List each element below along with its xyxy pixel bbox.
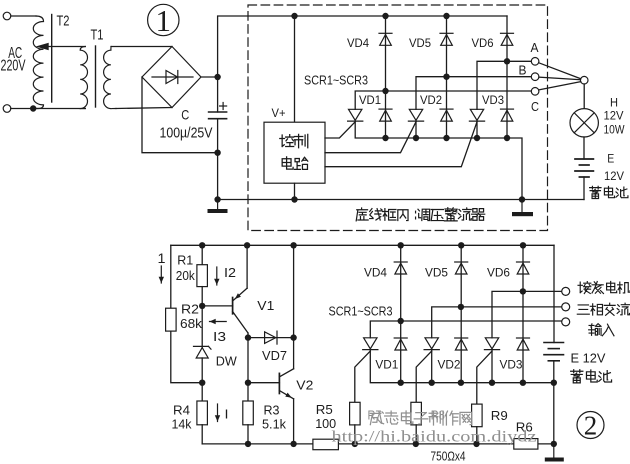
thyristor SCR1 xyxy=(348,109,363,121)
thyristor SCR3 xyxy=(469,109,484,121)
circuit2 supply rail xyxy=(171,244,554,246)
battery E circuit2 xyxy=(544,343,564,361)
svg-text:10W: 10W xyxy=(604,125,625,137)
node rail VD1 xyxy=(382,135,388,141)
svg-text:R1: R1 xyxy=(177,253,193,268)
wire lamp to battery xyxy=(583,137,585,159)
transformer T1 primary winding xyxy=(80,47,87,109)
T2 core xyxy=(51,15,53,103)
transistor V1 xyxy=(202,288,248,333)
resistor R3 xyxy=(243,401,254,425)
wire phase A rail xyxy=(477,61,531,109)
control circuit box U1 xyxy=(264,122,325,183)
svg-text:B: B xyxy=(519,64,527,78)
node phase B at VD2 xyxy=(443,74,449,80)
wire V+ to control box xyxy=(294,16,296,122)
wire C to common xyxy=(539,82,581,90)
node crail SCR3 xyxy=(489,380,495,386)
node rail V1 emitter xyxy=(244,242,250,248)
svg-text:A: A xyxy=(531,41,540,55)
diode VD7 xyxy=(265,331,277,344)
wire SCR cathodes rail xyxy=(355,122,522,200)
ground symbol left xyxy=(208,200,228,214)
label R4 14k xyxy=(172,403,192,432)
label 1 with arrow xyxy=(158,250,166,283)
svg-text:220V: 220V xyxy=(1,58,26,75)
svg-text:VD7: VD7 xyxy=(262,349,287,363)
wire R1 to base node xyxy=(201,287,203,348)
node crail VD1 xyxy=(398,380,404,386)
wire phase3 to terminal xyxy=(370,321,561,338)
transistor V2 xyxy=(248,369,294,399)
diode VD6 xyxy=(506,16,508,138)
svg-text:SCR1~SCR3: SCR1~SCR3 xyxy=(329,305,393,319)
label E 12V battery1 xyxy=(604,154,624,184)
T1 core xyxy=(95,46,97,107)
T1 secondary winding xyxy=(104,47,116,109)
node rail R1 xyxy=(199,242,205,248)
circled label 1 xyxy=(148,3,179,38)
node junction AC bottom xyxy=(30,105,36,111)
wire phase2 to terminal xyxy=(432,307,562,338)
svg-text:R9: R9 xyxy=(491,408,508,423)
node VD7 anode xyxy=(245,334,251,340)
battery E circuit1 xyxy=(575,159,593,177)
ground symbol right xyxy=(512,200,533,217)
capacitor C xyxy=(209,112,227,119)
node phase1 VD3b xyxy=(520,288,526,294)
wire T1 secondary bottom to bridge xyxy=(116,108,172,109)
node rail VD6b xyxy=(520,242,526,248)
svg-text:DW: DW xyxy=(216,354,238,369)
node rail R3 xyxy=(245,441,251,447)
wire R2 bottom to DW node xyxy=(171,331,199,383)
node phase3 VD1b xyxy=(398,318,404,324)
contact B xyxy=(531,73,539,81)
wire SCR1 gate to R7 xyxy=(355,351,371,402)
label three-phase input hanzi xyxy=(578,281,630,293)
contact A xyxy=(531,58,539,66)
dashed box: regulator-rectifier xyxy=(248,5,548,231)
node control ground junction xyxy=(291,196,297,202)
svg-text:C: C xyxy=(531,100,539,114)
node rail R9 xyxy=(473,441,479,447)
wire bridge + output xyxy=(201,76,218,78)
svg-text:I3: I3 xyxy=(213,329,226,344)
node rail VD7 column xyxy=(290,242,296,248)
lamp H xyxy=(570,109,598,137)
svg-text:VD4: VD4 xyxy=(347,38,370,50)
node V+ rail at VD5 xyxy=(443,13,449,19)
wire bridge - down xyxy=(142,77,218,153)
wire to R4 xyxy=(201,383,203,401)
svg-text:VD5: VD5 xyxy=(425,268,448,280)
svg-text:VD3: VD3 xyxy=(482,95,504,107)
switch common point xyxy=(580,76,588,84)
wire common to lamp xyxy=(583,84,585,109)
wire R1 top xyxy=(201,245,203,264)
diode column VD6b VD3b xyxy=(522,245,524,382)
node rail VD5b xyxy=(458,242,464,248)
wire control box to ground rail xyxy=(294,183,296,199)
resistor R5 xyxy=(313,439,339,450)
node cap negative junction xyxy=(214,150,220,156)
svg-text:5.1k: 5.1k xyxy=(262,417,286,432)
thyristor SCR2 c2 xyxy=(424,338,439,350)
svg-text:VD1: VD1 xyxy=(375,360,398,372)
svg-text:VD4: VD4 xyxy=(364,268,388,280)
diode VD1 xyxy=(379,109,392,121)
wire V1 emitter to rail xyxy=(246,245,248,288)
node DW bottom xyxy=(199,380,205,386)
svg-text:100µ/25V: 100µ/25V xyxy=(160,126,213,142)
label AC 220V xyxy=(1,45,26,75)
resistor R6 xyxy=(514,439,538,450)
wire left column to R2 xyxy=(170,245,172,308)
svg-text:R4: R4 xyxy=(173,403,190,418)
wire R3 to bottom rail xyxy=(247,425,249,444)
svg-text:SCR1~SCR3: SCR1~SCR3 xyxy=(304,74,368,88)
resistor R4 xyxy=(197,401,208,425)
svg-text:R2: R2 xyxy=(181,302,199,317)
capacitor C plus sign xyxy=(220,103,227,110)
diode VD4 xyxy=(385,16,387,138)
node bridge + junction xyxy=(214,74,220,80)
svg-text:H: H xyxy=(610,98,618,110)
svg-text:VD6: VD6 xyxy=(472,38,494,50)
node crail battery xyxy=(551,380,557,386)
battery supply column xyxy=(553,245,555,342)
wire bridge + up to V+ rail xyxy=(218,16,507,77)
V2 emitter arrow (NPN) xyxy=(285,393,292,398)
resistor R9 xyxy=(472,404,483,427)
resistor R8 xyxy=(411,402,422,425)
node crail SCR2 xyxy=(429,380,435,386)
node scr-rail ground junction xyxy=(519,196,525,202)
svg-text:1: 1 xyxy=(158,250,166,266)
svg-text:VD1: VD1 xyxy=(359,95,381,107)
svg-text:C: C xyxy=(181,107,189,123)
wire control gate 2 xyxy=(325,122,416,153)
wire V1 collector down xyxy=(247,333,249,338)
terminal generator 1 xyxy=(562,287,570,295)
bottom rail circuit 2 xyxy=(202,443,554,445)
wire cap top xyxy=(217,77,219,112)
current arrow I2 xyxy=(214,265,236,285)
wire T1 primary bottom xyxy=(33,108,85,110)
svg-text:VD6: VD6 xyxy=(487,268,510,280)
transformer T2 winding xyxy=(33,16,43,109)
node rail R8 xyxy=(413,441,419,447)
node crail VD3 xyxy=(520,380,526,386)
resistor R2 xyxy=(166,308,177,331)
svg-text:12V: 12V xyxy=(604,111,624,123)
resistor R7 xyxy=(350,402,361,425)
AC input terminal top xyxy=(3,12,11,20)
svg-text:VD2: VD2 xyxy=(438,360,461,372)
svg-text:2: 2 xyxy=(584,411,598,441)
svg-text:V2: V2 xyxy=(296,378,313,393)
wire phase C rail xyxy=(355,91,531,109)
node phase2 VD2b xyxy=(458,304,464,310)
label R1 20k xyxy=(176,253,195,284)
node rail SCR3 xyxy=(474,135,480,141)
wire AC top to T2 xyxy=(11,15,36,17)
AC input terminal bottom xyxy=(3,105,11,113)
svg-text:V+: V+ xyxy=(272,108,286,120)
wire B to common xyxy=(539,77,581,80)
T2 variable tap arrow xyxy=(36,43,86,50)
terminal generator 3 xyxy=(562,318,570,326)
resistor R1 xyxy=(197,265,208,287)
wire R8 to rail xyxy=(415,425,417,444)
thyristor SCR2 xyxy=(408,109,423,121)
node battery ground junction xyxy=(551,441,557,447)
svg-text:20k: 20k xyxy=(176,268,195,283)
node phase A at VD3 xyxy=(504,58,510,64)
wire R9 to rail xyxy=(476,427,478,444)
diode VD2 xyxy=(440,109,453,121)
svg-text:R3: R3 xyxy=(264,403,280,418)
wire SCR3 gate to R9 xyxy=(477,351,492,404)
diode column VD4b VD1b xyxy=(400,245,402,382)
node phase C at VD1 xyxy=(382,88,388,94)
wire V2 collector xyxy=(293,338,295,369)
svg-text:68k: 68k xyxy=(180,316,203,331)
node rail SCR2 xyxy=(413,135,419,141)
node rail V2e xyxy=(290,441,296,447)
bridge rectifier xyxy=(142,47,201,108)
wire VD7 column from rail xyxy=(293,245,295,337)
svg-text:14k: 14k xyxy=(172,417,192,432)
terminal generator 2 xyxy=(562,303,570,311)
wire battery2 to rails xyxy=(553,361,555,444)
wire phase B rail xyxy=(416,77,531,110)
contact C xyxy=(531,88,539,96)
svg-text:VD3: VD3 xyxy=(500,360,523,372)
svg-text:http://hi.baidu.com.diydz: http://hi.baidu.com.diydz xyxy=(332,429,537,446)
node rail VD2 xyxy=(443,135,449,141)
diode VD3 xyxy=(501,109,514,121)
label control circuit hanzi xyxy=(280,134,308,147)
wire control gate 1 xyxy=(325,122,355,138)
node rail R7 xyxy=(352,441,358,447)
svg-text:T2: T2 xyxy=(57,13,70,29)
ground symbol circuit2 xyxy=(545,444,564,462)
cathode rail circuit2 xyxy=(370,350,554,382)
label H 12V 10W xyxy=(604,98,625,137)
svg-text:R5: R5 xyxy=(316,402,333,417)
wire cap bottom to ground rail xyxy=(217,119,219,200)
diode VD5 xyxy=(446,16,448,138)
current arrow I xyxy=(215,404,229,422)
node ground left junction xyxy=(214,196,220,202)
svg-text:VD2: VD2 xyxy=(420,95,442,107)
V1 emitter arrow (PNP) xyxy=(235,293,241,299)
svg-text:12V: 12V xyxy=(604,171,624,183)
wire phase1 to terminal xyxy=(492,291,562,337)
node rail VD4b xyxy=(398,242,404,248)
svg-text:E 12V: E 12V xyxy=(571,352,607,366)
label R2 68k xyxy=(180,302,203,332)
wire AC bottom to junction xyxy=(11,108,31,110)
wire R4 to bottom rail xyxy=(201,425,203,444)
current arrow I3 xyxy=(210,319,227,344)
svg-text:1: 1 xyxy=(156,3,172,38)
diode column VD5b VD2b xyxy=(460,245,462,382)
wire T1 secondary top to bridge xyxy=(111,46,172,48)
svg-text:E: E xyxy=(607,154,614,166)
watermark line 1 xyxy=(370,411,471,425)
ground rail of circuit 1 xyxy=(218,199,584,201)
node V+ rail at VD4 xyxy=(382,13,388,19)
label R3 5.1k xyxy=(262,403,286,432)
svg-text:750Ωx4: 750Ωx4 xyxy=(431,449,466,464)
wire battery1 negative xyxy=(583,177,585,200)
svg-text:VD5: VD5 xyxy=(409,38,431,50)
wire SCR2 gate to R8 xyxy=(416,351,432,402)
node crail VD2 xyxy=(458,380,464,386)
wire control gate 3 xyxy=(325,122,477,167)
wire base node to R3 xyxy=(247,338,249,401)
node VD7 cathode xyxy=(290,334,296,340)
wire DW to lower node xyxy=(201,358,203,383)
node V2 base xyxy=(245,380,251,386)
thyristor SCR3 c2 xyxy=(484,338,499,350)
node rail VD3 xyxy=(504,135,510,141)
node V+ rail at control column xyxy=(291,13,297,19)
svg-text:T1: T1 xyxy=(91,27,104,43)
wire A to common xyxy=(539,63,581,79)
zener diode DW xyxy=(194,346,212,358)
label inside dashed box hanzi xyxy=(356,208,485,221)
svg-text:I: I xyxy=(225,407,229,422)
wire V2 emitter to bottom rail xyxy=(293,399,295,444)
svg-text:I2: I2 xyxy=(224,265,236,280)
label R5 100 xyxy=(315,402,336,431)
svg-text:V1: V1 xyxy=(257,298,274,313)
node base divider xyxy=(199,303,205,309)
wire R7 to rail xyxy=(354,425,356,444)
wire VD7 xyxy=(248,337,294,339)
thyristor SCR1 c2 xyxy=(363,338,378,350)
circled label 2 xyxy=(577,411,604,441)
